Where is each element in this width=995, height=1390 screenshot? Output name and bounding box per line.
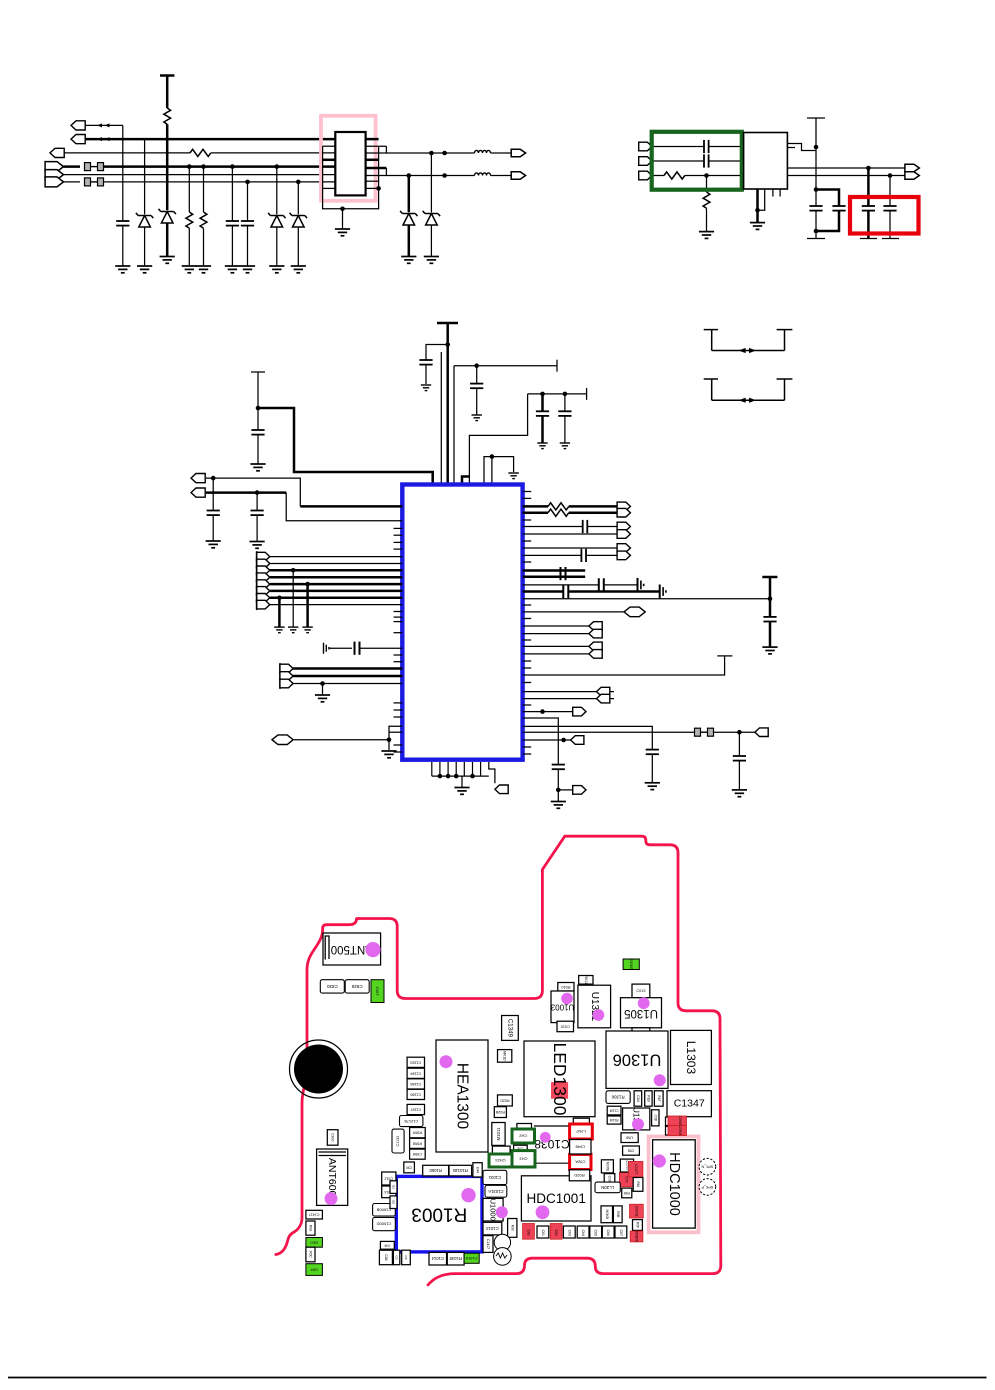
svg-text:C0D: C0D bbox=[653, 1115, 657, 1122]
capacitor C34 line with termination bbox=[523, 590, 564, 593]
svg-text:R909: R909 bbox=[413, 1131, 422, 1135]
svg-text:C66: C66 bbox=[606, 1230, 610, 1236]
LL30N bbox=[595, 1182, 620, 1193]
zener diode D5 bbox=[429, 151, 434, 156]
svg-text:SPK_N: SPK_N bbox=[701, 1165, 713, 1169]
svg-text:C1417: C1417 bbox=[309, 1213, 320, 1217]
C010 bbox=[557, 1021, 574, 1031]
C1417 bbox=[306, 1210, 323, 1219]
C0D08 bbox=[630, 1204, 644, 1218]
U58 bbox=[621, 1133, 638, 1143]
ground drop 4 bbox=[320, 681, 325, 686]
net rail B bbox=[528, 393, 587, 395]
svg-text:C63: C63 bbox=[567, 1230, 571, 1236]
R1003 (blue highlighted) bbox=[396, 1176, 482, 1252]
svg-text:C1015: C1015 bbox=[465, 1256, 478, 1261]
series capacitor C27 with ground reference bbox=[324, 643, 330, 654]
connector pair F bbox=[523, 691, 614, 693]
wire bbox=[652, 160, 704, 162]
C02A bbox=[570, 1154, 591, 1169]
svg-text:M01D: M01D bbox=[503, 1051, 507, 1061]
R0A bbox=[306, 1221, 315, 1235]
C70 bbox=[619, 1172, 633, 1186]
CWT bbox=[371, 980, 384, 1003]
thick stub pair with capacitor C32 bbox=[523, 569, 586, 572]
svg-text:C90: C90 bbox=[406, 1165, 412, 1169]
connector out1 bbox=[511, 149, 525, 157]
svg-text:C1000B: C1000B bbox=[376, 1207, 391, 1212]
svg-text:R64: R64 bbox=[636, 1181, 640, 1187]
svg-text:R02D: R02D bbox=[500, 1098, 510, 1102]
ground under comb bbox=[461, 776, 463, 787]
pin join bracket top bbox=[365, 146, 386, 153]
HDC1001 bbox=[521, 1176, 591, 1221]
resistor R10 bbox=[664, 172, 685, 179]
C88 bbox=[666, 1127, 676, 1136]
capacitor C13 loop bbox=[814, 187, 819, 192]
IC U2 body bbox=[744, 133, 788, 190]
svg-text:C1186: C1186 bbox=[410, 1092, 421, 1096]
resistor R1 bbox=[190, 149, 211, 156]
resistor R3 bbox=[187, 164, 192, 169]
svg-text:C11M: C11M bbox=[610, 1109, 619, 1113]
svg-text:C64: C64 bbox=[581, 1230, 585, 1236]
connector inL2 bbox=[191, 488, 205, 497]
svg-text:CH23: CH23 bbox=[495, 1158, 506, 1163]
footer rule bbox=[8, 1377, 987, 1379]
svg-text:U1306: U1306 bbox=[613, 1051, 662, 1069]
C1183 bbox=[407, 1057, 424, 1067]
svg-text:C0: C0 bbox=[395, 1256, 399, 1260]
svg-text:C1417: C1417 bbox=[486, 1239, 490, 1249]
wire L3 bbox=[64, 152, 190, 154]
svg-text:LED1300: LED1300 bbox=[550, 1043, 570, 1116]
wire bbox=[652, 146, 704, 148]
C88 bbox=[379, 1250, 392, 1265]
svg-text:C0107: C0107 bbox=[634, 1164, 638, 1174]
wire from rail B to IC bbox=[469, 394, 527, 485]
R0F bbox=[633, 1220, 643, 1231]
svg-text:C1013: C1013 bbox=[486, 1226, 499, 1231]
svg-text:B1: B1 bbox=[392, 1185, 396, 1189]
IC U3 (main) bbox=[402, 485, 522, 760]
C1000D bbox=[373, 1218, 396, 1231]
left power rail bbox=[251, 371, 265, 373]
antenna ANT600 bbox=[317, 1149, 348, 1205]
R910 bbox=[492, 1146, 510, 1155]
coil footprint bbox=[494, 1234, 510, 1250]
svg-text:C600: C600 bbox=[331, 1133, 335, 1141]
svg-text:C1187: C1187 bbox=[410, 1108, 421, 1112]
svg-text:U1305: U1305 bbox=[624, 1007, 658, 1019]
inductor FB3 bbox=[475, 150, 491, 153]
hexagon connector H1 bbox=[272, 735, 293, 745]
bus wires to U3 bbox=[270, 556, 403, 558]
svg-text:C9: C9 bbox=[404, 1256, 408, 1260]
svg-text:C1031: C1031 bbox=[488, 1175, 501, 1180]
capacitor C24 bbox=[564, 394, 566, 411]
wire bus L2 bbox=[85, 138, 335, 141]
M0B08 bbox=[630, 1231, 643, 1242]
svg-text:C88: C88 bbox=[384, 1254, 388, 1260]
capacitor C3 bbox=[245, 180, 250, 185]
C1132 bbox=[392, 1129, 404, 1153]
ferrite bead FB5 line bbox=[523, 731, 696, 733]
svg-text:R1F: R1F bbox=[657, 1095, 661, 1101]
capacitor C11 bbox=[704, 154, 709, 167]
wire bus L4 bbox=[104, 165, 335, 168]
svg-text:R1306: R1306 bbox=[611, 1095, 624, 1100]
svg-text:ANT600: ANT600 bbox=[326, 1158, 338, 1197]
B1 bbox=[390, 1181, 397, 1194]
svg-text:M07B: M07B bbox=[605, 1162, 609, 1172]
svg-text:C61: C61 bbox=[541, 1230, 545, 1236]
R1060 bbox=[423, 1165, 449, 1176]
capacitor C21 bbox=[426, 345, 448, 361]
M07B bbox=[601, 1160, 613, 1173]
GEO bbox=[306, 1238, 323, 1248]
connector P1 bbox=[71, 121, 85, 130]
highlight box (red) bbox=[850, 197, 919, 234]
jumper JP1 bbox=[704, 330, 793, 351]
connector 3-stack bbox=[280, 664, 293, 673]
connector pair A bbox=[617, 502, 630, 511]
capacitor C20 bbox=[251, 430, 264, 435]
CH23 bbox=[489, 1154, 512, 1167]
wire C1038 net top bbox=[534, 1125, 572, 1127]
C44 bbox=[473, 1163, 482, 1177]
svg-text:C829: C829 bbox=[351, 984, 362, 989]
svg-text:C62: C62 bbox=[554, 1230, 558, 1236]
R1F bbox=[654, 1091, 663, 1106]
capacitor C12 bbox=[809, 206, 822, 211]
wire bbox=[211, 152, 335, 154]
U1003 bbox=[551, 991, 574, 1023]
M0KB bbox=[601, 1206, 613, 1223]
ground drop 2 bbox=[291, 568, 296, 573]
svg-text:R0F: R0F bbox=[635, 1222, 639, 1228]
junction dots bbox=[442, 151, 447, 156]
C0107 bbox=[629, 1161, 643, 1177]
C62 bbox=[550, 1224, 562, 1240]
svg-text:U1000: U1000 bbox=[489, 1199, 498, 1221]
svg-text:C58: C58 bbox=[628, 1149, 635, 1153]
U1000 bbox=[483, 1198, 503, 1221]
wire rails into IC top bbox=[440, 352, 442, 485]
highlight box (green) bbox=[652, 132, 742, 190]
M1011 bbox=[492, 1123, 505, 1146]
C1349 bbox=[502, 1016, 519, 1041]
svg-text:U58: U58 bbox=[626, 1136, 633, 1140]
svg-text:R65: R65 bbox=[624, 1191, 630, 1195]
svg-text:C048: C048 bbox=[575, 1144, 585, 1149]
R02D bbox=[498, 1095, 513, 1106]
R1048 bbox=[447, 1252, 464, 1265]
C829 bbox=[345, 980, 369, 993]
C1417 bbox=[483, 1236, 493, 1253]
small box above red bbox=[573, 1118, 589, 1124]
svg-text:R30: R30 bbox=[510, 1225, 514, 1231]
ground drop 3 bbox=[305, 582, 310, 587]
capacitor C23 bbox=[541, 394, 544, 411]
resistor R4 bbox=[201, 164, 206, 169]
C1000B bbox=[373, 1204, 396, 1217]
svg-text:C1184: C1184 bbox=[410, 1071, 421, 1075]
junction bbox=[704, 173, 709, 178]
capacitor C31 line bbox=[523, 547, 618, 549]
svg-text:B2: B2 bbox=[392, 1200, 396, 1204]
pin step to rail bbox=[787, 144, 816, 151]
R909 bbox=[410, 1128, 426, 1138]
board outline bbox=[276, 836, 721, 1285]
R1306 bbox=[606, 1091, 630, 1104]
svg-text:R011: R011 bbox=[584, 975, 588, 984]
C67 bbox=[615, 1226, 627, 1238]
capacitor C1 bbox=[122, 125, 124, 221]
capacitor C14 bbox=[866, 166, 871, 171]
capacitor C37 branch bbox=[523, 726, 653, 749]
R0C bbox=[306, 1247, 315, 1262]
M01D bbox=[498, 1050, 512, 1063]
capacitor C26 bbox=[255, 490, 260, 495]
ferrite bead FB1 bbox=[64, 165, 81, 168]
C913 bbox=[382, 1186, 396, 1198]
middle-left components bbox=[257, 528, 403, 757]
connector out2 bbox=[511, 172, 525, 180]
C66 bbox=[602, 1226, 614, 1238]
connector out4 bbox=[905, 172, 919, 180]
wire bbox=[85, 124, 123, 126]
mounting hole ring bbox=[290, 1040, 348, 1098]
ground drop 1 bbox=[277, 596, 282, 601]
inductor FB4 bbox=[475, 173, 491, 176]
wire L5 bbox=[64, 174, 336, 176]
svg-text:C70: C70 bbox=[624, 1176, 628, 1182]
wire C1038 net bottom bbox=[535, 1162, 572, 1164]
svg-text:L1303: L1303 bbox=[684, 1041, 698, 1075]
svg-text:M0KB: M0KB bbox=[605, 1210, 609, 1220]
svg-text:SPK_P: SPK_P bbox=[701, 1185, 713, 1189]
C912 bbox=[382, 1172, 396, 1185]
capacitor C2 bbox=[230, 164, 235, 169]
C9 bbox=[402, 1250, 411, 1265]
connector bus arrows (8x) bbox=[257, 552, 270, 561]
capacitor C10 bbox=[704, 140, 709, 153]
svg-text:C010: C010 bbox=[561, 1024, 570, 1028]
R010 bbox=[558, 983, 574, 992]
GNT bbox=[306, 1264, 323, 1276]
jumper JP2 bbox=[704, 379, 793, 400]
svg-text:R11M: R11M bbox=[610, 1118, 619, 1122]
long net wire bbox=[523, 598, 770, 600]
capacitor C30 line bbox=[523, 526, 583, 528]
R02D bbox=[569, 1170, 589, 1181]
connector J2 bbox=[639, 157, 652, 166]
C013 bbox=[632, 984, 650, 998]
svg-text:R1B: R1B bbox=[646, 1095, 650, 1101]
svg-text:C44: C44 bbox=[384, 1243, 390, 1247]
C1347 bbox=[667, 1091, 711, 1117]
svg-text:C830: C830 bbox=[326, 984, 337, 989]
C63 bbox=[563, 1226, 575, 1238]
U1305 bbox=[621, 998, 662, 1028]
wire step bbox=[462, 477, 469, 485]
wire bus L6 bbox=[104, 181, 335, 183]
C067 bbox=[604, 1174, 615, 1186]
svg-text:C0D08: C0D08 bbox=[634, 1206, 638, 1217]
highlight LED1300 pad bbox=[551, 1082, 568, 1099]
C60 bbox=[523, 1224, 535, 1240]
R1B bbox=[645, 1091, 652, 1106]
ferrite bead FB2 bbox=[85, 178, 104, 186]
C908 bbox=[410, 1149, 426, 1159]
svg-text:CH2: CH2 bbox=[518, 1134, 527, 1139]
svg-text:R1305: R1305 bbox=[629, 959, 633, 970]
C048 bbox=[570, 1140, 591, 1155]
svg-text:C0808: C0808 bbox=[678, 1116, 682, 1126]
C0808 bbox=[668, 1116, 687, 1126]
wire bbox=[206, 478, 300, 506]
C0 bbox=[393, 1250, 399, 1265]
connector pair E bbox=[523, 645, 602, 647]
C830 bbox=[320, 980, 344, 993]
U2 ground pins bbox=[756, 189, 759, 223]
svg-text:R1003: R1003 bbox=[411, 1204, 467, 1225]
R65 bbox=[622, 1188, 632, 1198]
zener diode D3 bbox=[275, 164, 280, 169]
CH3 bbox=[512, 1151, 535, 1167]
ANT600 feed bracket bbox=[319, 1151, 346, 1153]
IC U1 body bbox=[335, 132, 365, 195]
svg-text:C1000D: C1000D bbox=[377, 1222, 392, 1227]
connector pair B bbox=[617, 522, 630, 531]
svg-text:GEO: GEO bbox=[310, 1240, 318, 1244]
C11M bbox=[607, 1106, 621, 1115]
net rail A bbox=[454, 365, 557, 367]
connector K2 bbox=[523, 739, 571, 741]
reference dots bbox=[365, 942, 380, 957]
svg-text:C1M: C1M bbox=[636, 1095, 640, 1102]
svg-text:C908: C908 bbox=[413, 1152, 422, 1156]
svg-text:C1014: C1014 bbox=[431, 1256, 444, 1261]
R30 bbox=[508, 1219, 517, 1238]
C1217B bbox=[400, 1116, 423, 1127]
connector P5 bbox=[45, 170, 63, 180]
svg-text:L2N7: L2N7 bbox=[575, 1129, 585, 1134]
svg-text:C1031A: C1031A bbox=[488, 1189, 503, 1194]
svg-text:GNT: GNT bbox=[310, 1268, 318, 1272]
bracket pins bbox=[389, 726, 402, 750]
capacitor C38 bbox=[738, 732, 740, 756]
C1186 bbox=[407, 1089, 424, 1099]
svg-text:C44: C44 bbox=[476, 1167, 480, 1173]
C1187 bbox=[407, 1104, 424, 1114]
power rail with resistor R2 bbox=[160, 74, 174, 77]
C65 bbox=[590, 1226, 602, 1238]
HEA1300 bbox=[436, 1040, 488, 1152]
antenna ANT500 bbox=[323, 933, 381, 965]
R1011B bbox=[449, 1165, 472, 1176]
svg-text:CH3: CH3 bbox=[519, 1156, 528, 1161]
hexagon connector H2 bbox=[523, 611, 624, 613]
C58 bbox=[623, 1146, 640, 1155]
svg-text:C1132: C1132 bbox=[396, 1136, 400, 1147]
svg-text:R908: R908 bbox=[413, 1141, 422, 1145]
svg-text:R0C: R0C bbox=[308, 1251, 312, 1258]
resistor R11 to ground bbox=[706, 176, 708, 193]
svg-text:C013: C013 bbox=[636, 989, 645, 993]
connector K1 bbox=[523, 711, 573, 713]
svg-text:C1349: C1349 bbox=[506, 1019, 513, 1038]
svg-text:C1347: C1347 bbox=[674, 1098, 705, 1110]
wire to IC bbox=[258, 408, 433, 485]
svg-text:C02A: C02A bbox=[575, 1159, 585, 1164]
B2 bbox=[390, 1196, 397, 1209]
svg-text:C1217B: C1217B bbox=[404, 1119, 418, 1123]
C1184 bbox=[407, 1068, 424, 1078]
svg-text:R02D: R02D bbox=[574, 1173, 584, 1178]
svg-text:R02B: R02B bbox=[495, 1110, 505, 1114]
L2N7 bbox=[570, 1124, 593, 1139]
connector J3 bbox=[639, 171, 652, 180]
svg-text:C65: C65 bbox=[594, 1230, 598, 1236]
svg-text:M1011: M1011 bbox=[496, 1127, 501, 1141]
capacitor C25 bbox=[211, 476, 216, 481]
C1015 bbox=[464, 1253, 479, 1263]
C1M bbox=[634, 1091, 642, 1106]
connector P6 bbox=[45, 177, 63, 187]
C90 bbox=[404, 1162, 415, 1173]
svg-text:R1011B: R1011B bbox=[453, 1168, 468, 1173]
C61 bbox=[537, 1226, 549, 1238]
bracket into IC top bbox=[484, 457, 514, 485]
speaker pad SPK_N bbox=[699, 1158, 716, 1175]
svg-text:C1185: C1185 bbox=[410, 1082, 421, 1086]
zener diode D2 bbox=[159, 209, 176, 223]
svg-text:R0A: R0A bbox=[308, 1225, 312, 1232]
U1 side frame wires bbox=[323, 146, 379, 209]
svg-text:C1038: C1038 bbox=[534, 1137, 570, 1151]
zener diode D6 bbox=[407, 173, 412, 178]
speaker pad SPK_P bbox=[699, 1179, 716, 1196]
svg-text:R0B: R0B bbox=[616, 1211, 620, 1217]
C1014 bbox=[429, 1252, 447, 1265]
bottom pin comb bbox=[432, 762, 481, 776]
svg-text:R1048: R1048 bbox=[449, 1256, 462, 1261]
highlight box (pink) around U1 bbox=[321, 116, 376, 201]
wire bbox=[206, 491, 286, 494]
output wire W1 bbox=[787, 167, 905, 169]
svg-text:C912: C912 bbox=[385, 1177, 394, 1181]
R0B bbox=[613, 1206, 622, 1223]
svg-text:C67: C67 bbox=[619, 1230, 623, 1236]
CH2 bbox=[512, 1129, 535, 1143]
connector P3 bbox=[50, 148, 64, 157]
connector P4 bbox=[45, 162, 63, 172]
svg-text:C0908: C0908 bbox=[678, 1126, 682, 1136]
capacitor C36 branch bbox=[523, 718, 559, 765]
output wire O1 bbox=[386, 152, 474, 154]
ground wire under U1 bbox=[340, 207, 345, 212]
mounting hole bbox=[294, 1045, 343, 1094]
connector pair D bbox=[523, 625, 602, 627]
pin join bracket bottom bbox=[365, 168, 386, 176]
capacitor C15 bbox=[888, 173, 893, 178]
connector inL1 bbox=[191, 474, 205, 483]
svg-text:LL30N: LL30N bbox=[601, 1185, 614, 1190]
C600 bbox=[327, 1130, 338, 1146]
svg-text:HEA1300: HEA1300 bbox=[454, 1063, 471, 1130]
